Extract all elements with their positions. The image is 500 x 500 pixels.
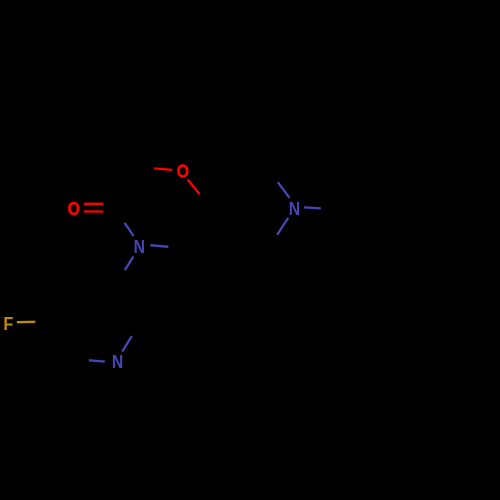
wire: carbonyl C3=O double bond, oxygen half, upper line [84,203,103,205]
wire: bond piperidine N-C2' nitrogen half [278,182,290,198]
svg-text:N: N [134,236,145,258]
wire: bond N4-pyridinyl nitrogen half [125,257,134,271]
wire: bond C2-O1 ring-oxygen half [154,168,172,170]
svg-text:F: F [3,313,13,334]
wire: bond O1-C6 ring-oxygen half [188,180,200,195]
node N4: morpholinone amide nitrogen [134,236,145,258]
svg-text:N: N [289,198,300,220]
node O2: carbonyl oxygen [68,198,80,220]
wire: bond F-C5 fluorine half [17,321,35,324]
wire: bond pyridine N1-C6 nitrogen half [89,360,105,361]
node F: fluorine substituent [3,313,13,334]
svg-text:O: O [68,198,80,220]
wire: bond N4-C5 nitrogen half [150,245,168,247]
wire: bond piperidine N-C6' nitrogen half [277,218,288,235]
wire: bond pyridine N1-C2 nitrogen half [122,336,132,352]
wire: carbonyl C3=O double bond, oxygen half, lower line [84,210,103,212]
svg-text:O: O [177,160,189,182]
wire: bond N4-C3 amide nitrogen half [125,223,134,236]
node O1: morpholinone ring oxygen [177,160,189,182]
node N1: pyridine nitrogen [112,351,123,373]
node N5: piperidine nitrogen [289,198,300,220]
wire: bond piperidine N-CH2 chain nitrogen half [304,207,321,208]
svg-text:N: N [112,351,123,373]
